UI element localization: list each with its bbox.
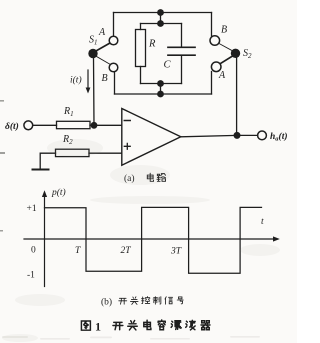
switch S2 lever to contact A [221,56,233,64]
op-amp U1 [122,109,181,166]
waveform x-axis [24,238,276,240]
wire: stub from RC bottom rail to outer bottom rail [160,84,162,95]
wire: R1 to op-amp inverting input [90,124,122,126]
svg-text:+1: +1 [27,204,37,214]
svg-text:B: B [102,73,108,84]
wire: drop from S2 contact A to bottom rail [211,72,213,95]
wire: outer bottom rail [115,93,212,95]
faint scan smudges (background texture) [2,139,280,342]
caption text: kai guan kong zhi xin hao [119,297,184,305]
wire: R top lead [140,24,142,30]
svg-text:A: A [218,70,226,81]
switch S1 pole [88,49,97,58]
wire: riser from top rail down to S2 contact B [211,13,213,37]
svg-text:ha(t): ha(t) [270,131,288,143]
op-amp plus sign [124,143,130,149]
wire: RC network top rail [141,23,182,25]
wire: C bottom lead [181,55,183,83]
svg-text:S1: S1 [89,35,98,47]
wire: input terminal to R1 [33,124,57,126]
node: top-rail junction [157,9,164,16]
switch S2 contact B [210,36,220,46]
node: output junction [234,132,241,139]
wire: ground riser to R2 [40,153,55,169]
node: RC bottom junction [157,80,164,87]
current arrow i(t) [87,70,89,89]
switch S1 lever to contact B [96,56,110,64]
svg-text:R1: R1 [63,106,74,118]
ground [33,169,49,171]
wire: op-amp output [181,135,258,136]
output terminal [258,131,267,140]
node: bottom-rail junction [157,91,164,98]
svg-text:T: T [75,246,81,256]
wire: C top lead [181,24,183,48]
wire: RC network bottom rail [141,83,182,85]
switch S1 lever to contact A [96,43,110,51]
svg-text:t: t [261,217,264,227]
svg-text:p(t): p(t) [51,187,66,198]
switch S1 contact A [109,36,118,45]
svg-text:(b): (b) [101,297,112,308]
svg-text:S2: S2 [243,48,252,60]
switch S2 contact A [211,62,221,72]
caption text: dian lu [147,173,165,181]
svg-text:1: 1 [95,320,101,334]
op-amp minus sign [124,120,130,122]
svg-text:-1: -1 [27,271,35,281]
switch S2 pole [231,49,240,58]
wire: S2 pole down to output node [236,58,238,136]
svg-text:δ(t): δ(t) [5,121,19,132]
wire: R bottom lead [140,67,142,84]
faint scan smudges (edge artifacts) [0,100,5,232]
svg-text:R: R [148,39,156,50]
wire: outer top rail [114,12,212,14]
waveform p(t) square wave [45,207,262,273]
capacitor C plates [168,47,195,55]
wire: stub from top rail to RC top rail [160,13,162,24]
wire: R2 to op-amp non-inverting input [89,152,122,154]
svg-text:2T: 2T [121,246,132,256]
svg-text:C: C [164,60,172,71]
waveform y-axis [44,195,46,287]
node: inverting input junction [91,122,98,129]
switch S1 contact B [109,63,118,72]
input terminal [24,121,33,130]
wire: riser from S1 contact A to top rail [113,13,115,37]
wire: drop from S1 contact B to bottom rail [114,72,116,94]
switch S2 lever to contact B [219,44,233,51]
svg-text:0: 0 [31,246,36,256]
svg-text:B: B [221,25,227,36]
node: RC top junction [157,20,164,27]
svg-text:A: A [98,27,106,38]
svg-text:i(t): i(t) [70,75,82,86]
svg-text:3T: 3T [170,247,182,257]
wire: S1 pole down to inverting node [93,58,96,126]
resistor R body [136,30,146,67]
resistor R2 body [56,149,90,156]
resistor R1 body [57,121,91,128]
